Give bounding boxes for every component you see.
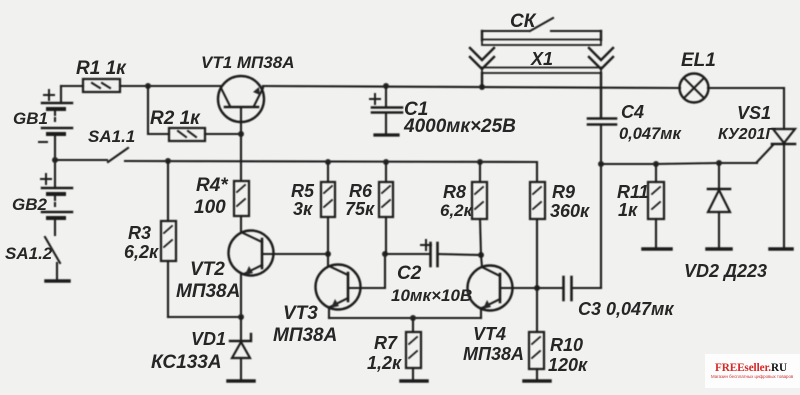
svg-text:R8: R8 <box>443 182 466 202</box>
svg-text:X1: X1 <box>530 49 553 69</box>
svg-text:R5: R5 <box>291 181 315 201</box>
transistor VT1 <box>218 76 264 122</box>
svg-text:VT2: VT2 <box>190 259 225 280</box>
svg-text:МП38А: МП38А <box>176 281 240 302</box>
wire top bus VT1 to EL1 <box>263 86 680 88</box>
connector X1 left pins <box>470 31 494 87</box>
resistor R8 <box>472 162 487 255</box>
svg-text:VT3: VT3 <box>283 303 318 324</box>
resistor R3 <box>161 161 176 317</box>
svg-text:R10: R10 <box>550 335 583 355</box>
resistor R7 <box>401 318 427 381</box>
svg-text:R9: R9 <box>552 182 575 202</box>
svg-text:VD1: VD1 <box>191 329 226 349</box>
svg-text:VT4: VT4 <box>473 324 506 344</box>
node R2 / VT1 base <box>238 131 244 137</box>
resistor R10 <box>524 288 550 381</box>
battery GB2 <box>41 160 72 218</box>
resistor R4 <box>234 181 249 232</box>
node R8 top <box>477 159 483 165</box>
svg-text:R11: R11 <box>617 182 649 202</box>
diode VD2 <box>707 163 731 249</box>
svg-text:100: 100 <box>194 197 226 218</box>
wire VT2 base to node <box>263 253 328 255</box>
svg-text:360к: 360к <box>550 201 590 221</box>
logo FREEseller.RU <box>705 354 800 388</box>
svg-text:КУ201Г: КУ201Г <box>718 126 776 143</box>
svg-text:С2: С2 <box>397 263 422 284</box>
wire VT4 base to R9/R10 <box>501 287 537 289</box>
wire R3 to VD1 node <box>168 316 241 318</box>
transistor VT4 <box>468 255 513 318</box>
node VT2 base / R5 / VT3 collector <box>325 251 331 257</box>
svg-text:120к: 120к <box>548 355 588 375</box>
svg-text:0,047мк: 0,047мк <box>619 125 682 143</box>
switch SA1.2 <box>45 218 69 281</box>
svg-text:10мк×10В: 10мк×10В <box>391 286 472 305</box>
svg-text:FREEseller.RU: FREEseller.RU <box>715 362 787 374</box>
svg-text:GB2: GB2 <box>12 195 48 214</box>
resistor R9 <box>530 182 545 288</box>
node GB1/GB2/SA1.1 junction <box>52 157 58 163</box>
resistor R5 <box>321 162 335 254</box>
resistor R1 <box>83 79 120 92</box>
svg-text:МП38А: МП38А <box>463 344 524 364</box>
svg-text:КС133А: КС133А <box>151 352 222 373</box>
node R7 top <box>410 315 416 321</box>
svg-text:R6: R6 <box>349 181 373 201</box>
svg-text:Магазин бесплатных цифровых то: Магазин бесплатных цифровых товаров <box>711 374 794 379</box>
wire GB1 to R1 <box>61 85 83 87</box>
lamp EL1 <box>680 74 709 103</box>
thyristor VS1 <box>757 88 795 249</box>
wire R2 to VT1 base <box>205 133 241 135</box>
svg-text:С3 0,047мк: С3 0,047мк <box>578 299 674 319</box>
capacitor C3 <box>537 277 601 300</box>
wire VT3/VT4 emitters <box>329 317 481 319</box>
wire gate bus <box>601 163 757 164</box>
battery GB1 <box>39 86 72 160</box>
svg-text:R1 1к: R1 1к <box>76 58 127 79</box>
wire VT1 base to R4 <box>240 107 242 181</box>
node C1 top <box>383 83 389 89</box>
capacitor C4 <box>588 119 616 165</box>
svg-text:R3: R3 <box>128 223 151 243</box>
svg-text:МП38А: МП38А <box>273 325 337 346</box>
node VD1 top <box>238 314 244 320</box>
node R3 top <box>165 158 171 164</box>
wire R1 to VT1 <box>120 85 221 87</box>
node R5 top <box>325 159 331 165</box>
node top bus / R2 <box>145 83 151 89</box>
resistor R2 <box>169 128 205 141</box>
node VD2 top <box>716 160 722 166</box>
svg-text:R7: R7 <box>374 333 398 353</box>
svg-text:6,2к: 6,2к <box>124 242 159 262</box>
transistor VT2 <box>229 231 274 276</box>
svg-text:VS1: VS1 <box>737 103 771 123</box>
transistor VT3 <box>316 254 361 318</box>
svg-text:6,2к: 6,2к <box>440 201 474 220</box>
svg-text:EL1: EL1 <box>681 50 716 71</box>
svg-text:СК: СК <box>510 11 537 32</box>
capacitor C1 <box>370 86 402 135</box>
connector X1 right pins <box>589 31 613 117</box>
svg-text:3к: 3к <box>293 199 313 219</box>
wire R2 drop <box>148 86 169 134</box>
svg-text:1,2к: 1,2к <box>367 353 402 373</box>
resistor R11 <box>643 164 671 249</box>
node C4 bottom <box>598 161 604 167</box>
svg-text:R2 1к: R2 1к <box>150 108 201 129</box>
node VT4 base / R9 / R10 / C3 <box>534 285 540 291</box>
node X1 left on bus <box>479 84 485 90</box>
svg-text:VT1 МП38А: VT1 МП38А <box>201 53 294 72</box>
connector X1 upper half <box>482 40 601 74</box>
wire VT2 emitter down <box>240 275 242 317</box>
node R6 bottom / VT3 base / C2 <box>382 251 388 257</box>
svg-text:75к: 75к <box>345 199 375 219</box>
resistor R6 <box>379 162 393 252</box>
node R8 bottom / C2 / VT4 collector <box>478 252 484 258</box>
node R6 top <box>383 159 389 165</box>
svg-text:VD2 Д223: VD2 Д223 <box>684 261 767 281</box>
wire VT3 base up <box>349 254 385 288</box>
svg-text:1к: 1к <box>618 200 638 220</box>
lower bus from SA1.1 <box>55 148 537 182</box>
svg-text:GB1: GB1 <box>13 109 48 128</box>
svg-text:R4*: R4* <box>196 175 229 196</box>
svg-text:4000мк×25В: 4000мк×25В <box>403 116 516 137</box>
zener VD1 <box>228 317 254 381</box>
capacitor C2 <box>385 240 481 266</box>
wire EL1 to VS1 <box>708 87 784 89</box>
node R11 top <box>653 161 659 167</box>
switch CK <box>482 18 601 31</box>
svg-text:SA1.1: SA1.1 <box>88 127 135 146</box>
svg-text:SA1.2: SA1.2 <box>5 244 53 263</box>
svg-text:С4: С4 <box>621 102 644 122</box>
wire C3/C4 junction line <box>600 164 602 288</box>
